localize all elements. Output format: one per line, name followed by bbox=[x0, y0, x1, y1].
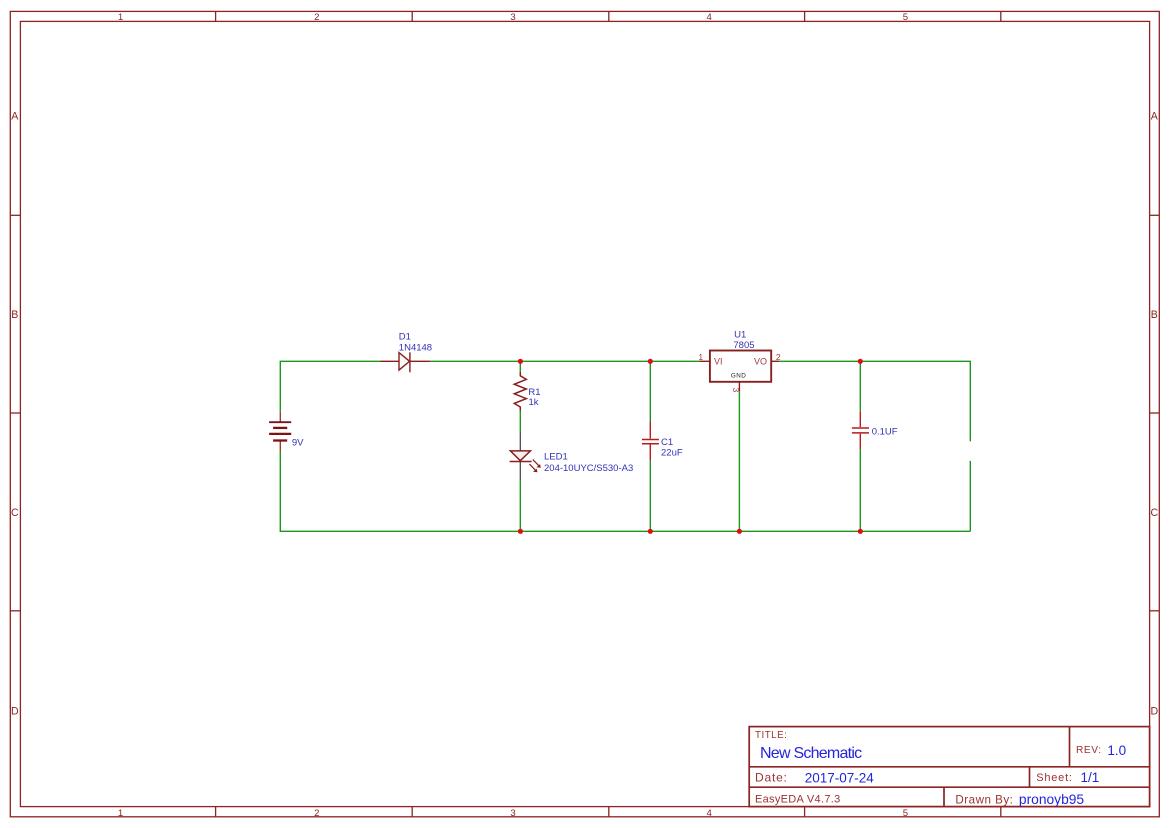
IC U1 7805 bbox=[698, 330, 781, 393]
diode D1 1N4148 bbox=[381, 332, 433, 373]
svg-text:GND: GND bbox=[731, 373, 746, 380]
svg-text:Date:: Date: bbox=[755, 771, 788, 785]
junction bottom rail at C1 bbox=[648, 529, 653, 534]
wire D1 cathode to U1 pin 1 bbox=[430, 360, 699, 362]
svg-text:2: 2 bbox=[314, 12, 319, 23]
battery 9V bbox=[269, 412, 304, 451]
svg-text:22uF: 22uF bbox=[661, 448, 683, 459]
svg-text:Sheet:: Sheet: bbox=[1036, 772, 1073, 784]
wire 0.1UF top stub bbox=[859, 361, 861, 412]
svg-text:1: 1 bbox=[118, 808, 123, 819]
svg-text:9V: 9V bbox=[292, 438, 304, 449]
svg-text:7805: 7805 bbox=[733, 340, 754, 351]
wire R1 top stub bbox=[519, 361, 521, 372]
svg-text:D: D bbox=[11, 706, 19, 718]
junction bottom rail at LED1 bbox=[518, 529, 523, 534]
svg-text:D1: D1 bbox=[399, 332, 411, 343]
wire LED1 to bottom rail bbox=[519, 481, 521, 532]
capacitor C1 22uF bbox=[642, 422, 683, 461]
svg-text:1: 1 bbox=[118, 12, 123, 23]
svg-text:1/1: 1/1 bbox=[1081, 770, 1100, 785]
wire C1 bottom bbox=[649, 461, 651, 532]
svg-text:3: 3 bbox=[510, 12, 515, 23]
svg-text:1N4148: 1N4148 bbox=[399, 342, 432, 353]
svg-text:Drawn By:: Drawn By: bbox=[955, 793, 1013, 806]
svg-text:1k: 1k bbox=[529, 397, 539, 408]
svg-text:4: 4 bbox=[707, 808, 713, 819]
svg-text:VI: VI bbox=[714, 356, 723, 366]
svg-text:TITLE:: TITLE: bbox=[755, 730, 787, 741]
svg-text:B: B bbox=[11, 309, 18, 321]
junction top rail at C1 bbox=[648, 359, 653, 364]
wire battery plus to D1 anode bbox=[280, 361, 380, 412]
wire C1 top bbox=[649, 361, 651, 421]
svg-text:LED1: LED1 bbox=[544, 451, 568, 462]
svg-text:2017-07-24: 2017-07-24 bbox=[805, 771, 875, 786]
svg-text:1.0: 1.0 bbox=[1107, 743, 1126, 758]
svg-text:5: 5 bbox=[903, 12, 908, 23]
wire bottom rail bbox=[280, 451, 970, 531]
svg-text:4: 4 bbox=[707, 12, 713, 23]
wire R1 to LED1 bbox=[519, 411, 521, 432]
resistor R1 1k bbox=[514, 372, 540, 411]
svg-text:2: 2 bbox=[776, 352, 781, 362]
svg-text:REV:: REV: bbox=[1076, 745, 1102, 756]
svg-text:B: B bbox=[1151, 309, 1158, 321]
svg-text:EasyEDA V4.7.3: EasyEDA V4.7.3 bbox=[755, 793, 841, 805]
svg-text:0.1UF: 0.1UF bbox=[872, 426, 898, 437]
junction top rail at 0.1UF bbox=[858, 359, 863, 364]
junction top rail at R1 bbox=[518, 359, 523, 364]
junction bottom rail at U1 GND bbox=[737, 529, 742, 534]
svg-text:A: A bbox=[1151, 110, 1159, 122]
wire U1 GND to bottom rail bbox=[738, 391, 740, 531]
svg-text:pronoyb95: pronoyb95 bbox=[1019, 792, 1085, 807]
svg-text:3: 3 bbox=[510, 808, 515, 819]
wire right lower segment bbox=[969, 461, 971, 531]
svg-text:3: 3 bbox=[731, 387, 741, 392]
capacitor 0.1UF bbox=[852, 412, 898, 449]
svg-text:204-10UYC/S530-A3: 204-10UYC/S530-A3 bbox=[544, 463, 633, 474]
wire U1 pin 2 to right edge bbox=[779, 361, 970, 441]
svg-text:New Schematic: New Schematic bbox=[760, 745, 862, 762]
svg-text:A: A bbox=[11, 110, 19, 122]
svg-text:5: 5 bbox=[903, 808, 908, 819]
svg-text:1: 1 bbox=[698, 352, 703, 362]
svg-text:D: D bbox=[1150, 706, 1158, 718]
svg-text:VO: VO bbox=[754, 356, 767, 366]
svg-text:2: 2 bbox=[314, 808, 319, 819]
wire 0.1UF bottom bbox=[859, 449, 861, 531]
title block bbox=[749, 727, 1149, 807]
svg-text:C: C bbox=[11, 507, 19, 519]
svg-text:C: C bbox=[1150, 507, 1158, 519]
LED1 204-10UYC/S530-A3 bbox=[510, 431, 634, 480]
junction bottom rail at 0.1UF bbox=[858, 529, 863, 534]
